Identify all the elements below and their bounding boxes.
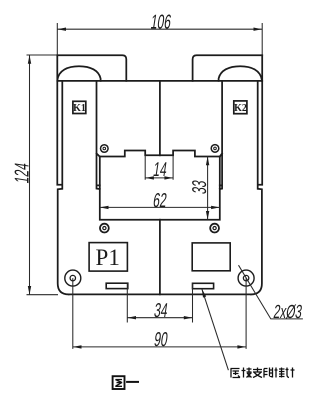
screw bottom-left <box>100 224 109 233</box>
dim 124 <box>27 55 59 295</box>
mounting hole left <box>65 270 81 286</box>
text 底板支脚插孔 (drawn strokes, CJK not available) <box>231 368 295 378</box>
dim 14 <box>145 177 173 179</box>
caption 图一 (drawn strokes) <box>113 376 139 389</box>
dim 34 <box>127 283 192 322</box>
screw bottom-right <box>210 224 219 233</box>
svg-text:124: 124 <box>10 161 33 184</box>
leader 2xØ3 <box>239 265 303 319</box>
svg-text:K2: K2 <box>234 103 247 114</box>
foot slot right <box>193 283 214 288</box>
right label box <box>192 243 230 271</box>
dim 33 <box>207 157 209 220</box>
P1 label box <box>89 243 127 272</box>
terminal cover bump left <box>57 55 126 81</box>
svg-text:K1: K1 <box>73 103 86 114</box>
svg-text:2xØ3: 2xØ3 <box>272 302 303 322</box>
slot walls / 14 extension lines <box>145 155 173 180</box>
center seam upper <box>159 81 161 155</box>
window opening <box>100 157 220 220</box>
seam right column <box>220 81 222 189</box>
svg-text:P1: P1 <box>96 245 120 270</box>
center seam lower <box>159 220 161 295</box>
seam left column <box>97 81 100 189</box>
screw top-left <box>101 145 109 153</box>
K2 terminal box <box>234 101 247 114</box>
body outline right edge <box>251 55 262 294</box>
dome arc right <box>219 66 262 81</box>
window top profile shelf and tabs <box>100 151 220 157</box>
dim 106 <box>57 23 262 55</box>
body bottom edge <box>69 293 251 295</box>
svg-text:106: 106 <box>149 11 172 34</box>
foot slot left <box>106 283 128 288</box>
screw top-right <box>211 145 219 153</box>
K1 terminal box <box>73 101 86 113</box>
dome arc left <box>57 66 100 81</box>
body shoulder line <box>57 80 262 82</box>
leader to foot (bottom plate leg hole) <box>202 289 229 370</box>
terminal cover bump right <box>193 55 263 81</box>
dim 62 <box>100 206 220 208</box>
mounting hole right <box>238 270 254 286</box>
body outline left edge <box>57 55 68 294</box>
dim 90 <box>73 278 246 349</box>
